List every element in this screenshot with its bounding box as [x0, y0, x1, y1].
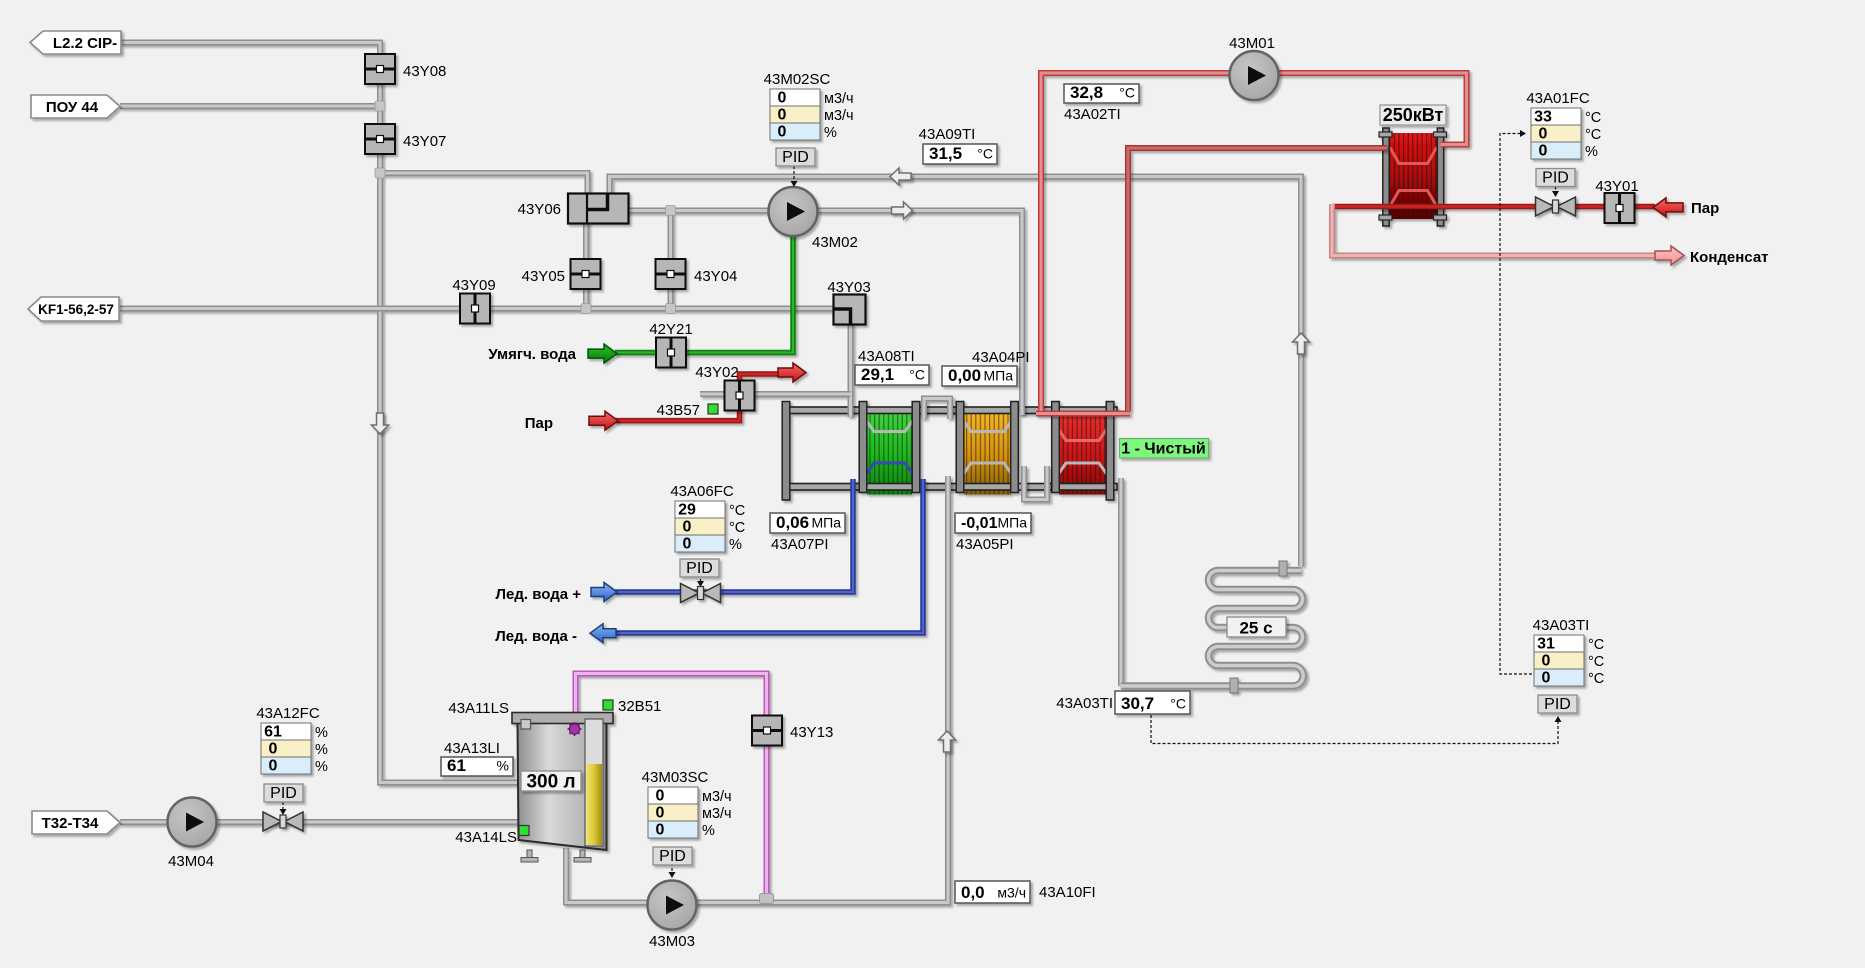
- svg-text:43A01FC: 43A01FC: [1526, 90, 1590, 107]
- svg-text:43A12FC: 43A12FC: [256, 705, 320, 722]
- svg-text:43Y01: 43Y01: [1595, 178, 1638, 195]
- svg-text:0,0: 0,0: [961, 883, 985, 902]
- svg-text:Умягч. вода: Умягч. вода: [488, 346, 576, 363]
- svg-text:29: 29: [678, 502, 696, 519]
- svg-text:°C: °C: [1585, 127, 1601, 143]
- svg-text:43A03TI: 43A03TI: [1056, 695, 1113, 712]
- svg-text:°C: °C: [1588, 654, 1604, 670]
- svg-text:°C: °C: [1170, 696, 1186, 712]
- svg-text:43A10FI: 43A10FI: [1039, 884, 1096, 901]
- svg-text:KF1-56,2-57: KF1-56,2-57: [38, 302, 114, 317]
- svg-text:43A09TI: 43A09TI: [919, 126, 976, 143]
- svg-text:33: 33: [1534, 109, 1552, 126]
- svg-text:43Y07: 43Y07: [403, 133, 446, 150]
- svg-text:43Y04: 43Y04: [694, 268, 737, 285]
- svg-text:43Y08: 43Y08: [403, 63, 446, 80]
- svg-text:43A11LS: 43A11LS: [448, 700, 509, 717]
- svg-text:PID: PID: [270, 785, 297, 802]
- svg-text:ПОУ 44: ПОУ 44: [46, 99, 99, 116]
- svg-text:м3/ч: м3/ч: [824, 91, 854, 107]
- svg-text:25 с: 25 с: [1239, 619, 1272, 638]
- svg-text:%: %: [702, 823, 715, 839]
- svg-text:PID: PID: [1542, 170, 1569, 187]
- svg-text:0: 0: [656, 822, 665, 839]
- svg-text:%: %: [729, 537, 742, 553]
- svg-text:%: %: [315, 725, 328, 741]
- svg-text:%: %: [497, 758, 509, 774]
- svg-text:0: 0: [269, 741, 278, 758]
- svg-text:0: 0: [269, 758, 278, 775]
- svg-text:0: 0: [683, 536, 692, 553]
- svg-text:%: %: [824, 125, 837, 141]
- svg-text:43A04PI: 43A04PI: [972, 349, 1030, 366]
- svg-text:43A08TI: 43A08TI: [858, 348, 915, 365]
- svg-text:м3/ч: м3/ч: [824, 108, 854, 124]
- svg-text:32B51: 32B51: [618, 698, 661, 715]
- svg-text:МПа: МПа: [811, 515, 841, 531]
- svg-text:Конденсат: Конденсат: [1690, 249, 1769, 266]
- svg-text:Лед. вода -: Лед. вода -: [495, 628, 577, 645]
- svg-text:Пар: Пар: [1691, 200, 1719, 217]
- svg-text:0: 0: [778, 90, 787, 107]
- svg-text:°C: °C: [729, 503, 745, 519]
- svg-text:43Y03: 43Y03: [827, 279, 870, 296]
- svg-text:43M01: 43M01: [1229, 35, 1275, 52]
- svg-text:43B57: 43B57: [657, 402, 700, 419]
- svg-text:43M04: 43M04: [168, 853, 214, 870]
- svg-text:43A02TI: 43A02TI: [1064, 106, 1121, 123]
- svg-text:42Y21: 42Y21: [649, 321, 692, 338]
- svg-text:30,7: 30,7: [1121, 694, 1154, 713]
- svg-text:43M02: 43M02: [812, 234, 858, 251]
- svg-text:Лед. вода +: Лед. вода +: [495, 586, 581, 603]
- svg-text:м3/ч: м3/ч: [702, 806, 732, 822]
- svg-text:°C: °C: [729, 520, 745, 536]
- svg-text:0: 0: [1539, 143, 1548, 160]
- svg-text:61: 61: [264, 724, 282, 741]
- svg-text:PID: PID: [686, 560, 713, 577]
- svg-text:%: %: [315, 742, 328, 758]
- svg-text:61: 61: [447, 756, 466, 775]
- svg-text:м3/ч: м3/ч: [702, 789, 732, 805]
- svg-text:°C: °C: [909, 367, 925, 383]
- svg-text:МПа: МПа: [983, 368, 1013, 384]
- svg-text:43Y06: 43Y06: [518, 201, 561, 218]
- svg-text:43A03TI: 43A03TI: [1533, 617, 1590, 634]
- svg-text:43Y13: 43Y13: [790, 724, 833, 741]
- svg-text:м3/ч: м3/ч: [997, 885, 1026, 901]
- svg-text:Пар: Пар: [525, 415, 553, 432]
- svg-text:31,5: 31,5: [929, 144, 962, 163]
- svg-text:43Y02: 43Y02: [695, 364, 738, 381]
- svg-text:31: 31: [1537, 636, 1555, 653]
- svg-text:43M02SC: 43M02SC: [764, 71, 831, 88]
- svg-text:43A05PI: 43A05PI: [956, 536, 1014, 553]
- svg-text:°C: °C: [1119, 85, 1135, 101]
- svg-text:43Y05: 43Y05: [522, 268, 565, 285]
- svg-text:0: 0: [778, 124, 787, 141]
- svg-text:МПа: МПа: [997, 515, 1027, 531]
- svg-text:°C: °C: [1585, 110, 1601, 126]
- svg-text:250кВт: 250кВт: [1383, 105, 1444, 125]
- svg-text:°C: °C: [1588, 637, 1604, 653]
- svg-text:L2.2 CIP-: L2.2 CIP-: [53, 35, 117, 52]
- svg-text:°C: °C: [1588, 671, 1604, 687]
- svg-text:29,1: 29,1: [861, 365, 894, 384]
- svg-text:43M03: 43M03: [649, 933, 695, 950]
- svg-text:0: 0: [1542, 653, 1551, 670]
- svg-text:%: %: [315, 759, 328, 775]
- svg-text:%: %: [1585, 144, 1598, 160]
- svg-text:43A14LS: 43A14LS: [455, 829, 517, 846]
- svg-text:Т32-Т34: Т32-Т34: [42, 815, 99, 832]
- svg-text:PID: PID: [659, 848, 686, 865]
- svg-text:43M03SC: 43M03SC: [642, 769, 709, 786]
- svg-text:0: 0: [1539, 126, 1548, 143]
- svg-text:32,8: 32,8: [1070, 83, 1103, 102]
- svg-text:300 л: 300 л: [526, 772, 575, 793]
- svg-text:0: 0: [1542, 670, 1551, 687]
- svg-text:0: 0: [656, 805, 665, 822]
- svg-text:43A13LI: 43A13LI: [444, 740, 500, 757]
- svg-text:°C: °C: [977, 146, 993, 162]
- svg-text:0,00: 0,00: [948, 366, 981, 385]
- svg-text:43Y09: 43Y09: [452, 277, 495, 294]
- svg-text:PID: PID: [1544, 696, 1571, 713]
- svg-text:PID: PID: [782, 149, 809, 166]
- svg-text:-0,01: -0,01: [961, 515, 998, 532]
- svg-text:0: 0: [778, 107, 787, 124]
- svg-text:0,06: 0,06: [776, 513, 809, 532]
- svg-text:0: 0: [683, 519, 692, 536]
- svg-text:43A07PI: 43A07PI: [771, 536, 829, 553]
- svg-text:43A06FC: 43A06FC: [670, 483, 734, 500]
- svg-text:1 - Чистый: 1 - Чистый: [1121, 441, 1205, 458]
- svg-text:0: 0: [656, 788, 665, 805]
